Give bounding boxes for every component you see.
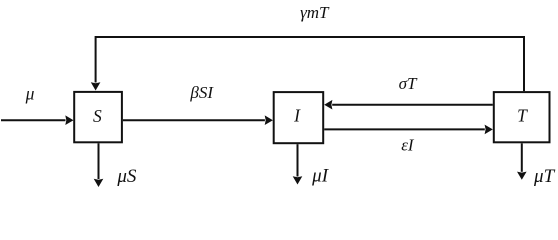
svg-text:μ: μ: [25, 84, 35, 104]
svg-text:I: I: [293, 105, 301, 125]
svg-text:σT: σT: [399, 74, 418, 93]
svg-text:μT: μT: [533, 166, 556, 187]
svg-text:βSI: βSI: [189, 83, 214, 102]
svg-text:εI: εI: [401, 135, 415, 154]
svg-text:μI: μI: [311, 166, 330, 187]
svg-text:μS: μS: [116, 166, 137, 187]
svg-text:S: S: [93, 106, 102, 126]
svg-text:T: T: [517, 105, 528, 125]
svg-text:γmT: γmT: [300, 3, 330, 22]
